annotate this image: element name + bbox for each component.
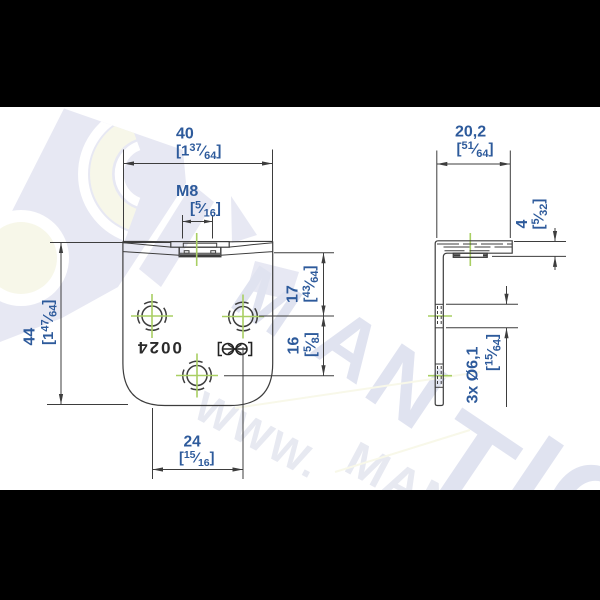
svg-text:[15⁄16]: [15⁄16] bbox=[179, 449, 215, 469]
svg-text:[5⁄32]: [5⁄32] bbox=[530, 199, 550, 230]
svg-text:17: 17 bbox=[285, 285, 302, 303]
svg-text:3x Ø6,1: 3x Ø6,1 bbox=[465, 346, 482, 403]
svg-text:0024: 0024 bbox=[136, 338, 182, 357]
svg-text:4: 4 bbox=[514, 220, 531, 229]
svg-text:40: 40 bbox=[176, 126, 194, 143]
svg-text:24: 24 bbox=[184, 434, 202, 451]
svg-text:[51⁄64]: [51⁄64] bbox=[457, 140, 494, 160]
svg-text:[5⁄8]: [5⁄8] bbox=[302, 332, 322, 357]
svg-text:44: 44 bbox=[22, 328, 39, 346]
svg-text:M8: M8 bbox=[176, 183, 198, 200]
svg-text:[137⁄64]: [137⁄64] bbox=[176, 142, 221, 162]
svg-text:[15⁄64]: [15⁄64] bbox=[484, 334, 504, 371]
svg-text:[43⁄64]: [43⁄64] bbox=[301, 265, 321, 302]
svg-text:16: 16 bbox=[286, 337, 303, 355]
svg-text:20,2: 20,2 bbox=[455, 124, 486, 141]
